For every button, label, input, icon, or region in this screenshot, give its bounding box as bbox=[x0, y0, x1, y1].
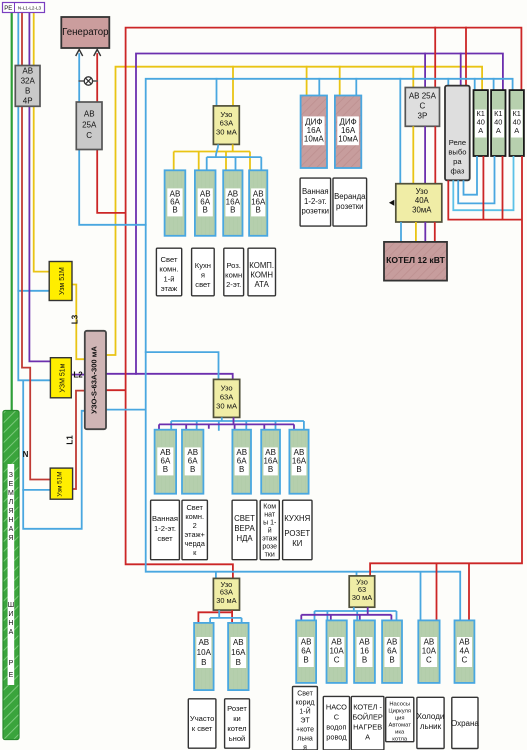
wire relay output bracket to K1-1 bbox=[464, 156, 478, 195]
contactor K1 40A no.2 bbox=[491, 90, 505, 156]
svg-text:М: М bbox=[8, 490, 14, 497]
svg-text:4А: 4А bbox=[460, 647, 470, 656]
svg-text:32А: 32А bbox=[21, 77, 36, 86]
wire N drop to UZO4 bbox=[356, 572, 358, 576]
svg-text:30 мА: 30 мА bbox=[216, 127, 238, 136]
breaker AV 6A B (kuhnya svet) bbox=[195, 170, 216, 236]
RCD UZO 63A 30mA no.2 bbox=[214, 379, 240, 417]
svg-text:АВ: АВ bbox=[301, 638, 312, 647]
load label nasos vodoprovod bbox=[323, 696, 349, 750]
breaker AV 6A B (vannaya svet) bbox=[155, 430, 177, 494]
svg-text:2: 2 bbox=[193, 521, 197, 530]
breaker AV 10A C (nasos vodoprovod) bbox=[327, 620, 347, 683]
wire yellow drop to UZO1 bbox=[232, 67, 234, 106]
load label komnaty 1 etazh rozetki bbox=[260, 500, 279, 560]
input terminal label PE N-L1-L2-L3 bbox=[3, 3, 45, 13]
contactor K1 40A no.3 bbox=[510, 90, 524, 156]
svg-text:АВ: АВ bbox=[459, 638, 470, 647]
svg-text:Холоди: Холоди bbox=[417, 712, 445, 721]
wire L2 distribution under UZO4 bbox=[301, 607, 391, 620]
wire purple drop to phase relay bbox=[460, 54, 462, 86]
svg-text:А: А bbox=[9, 526, 14, 533]
generator arrow left bbox=[76, 50, 83, 57]
svg-text:РОЗЕТ: РОЗЕТ bbox=[284, 529, 310, 538]
svg-text:Я: Я bbox=[8, 535, 13, 542]
svg-text:я: я bbox=[201, 271, 205, 280]
load label rozetki kotelnoy bbox=[225, 699, 250, 748]
breaker AV 16A B (roz komn 2 et) bbox=[223, 170, 242, 236]
wire yellow drop to DIF1 bbox=[306, 67, 308, 96]
svg-text:Ком: Ком bbox=[263, 504, 276, 511]
svg-text:Е: Е bbox=[9, 672, 14, 679]
load label roz komn 2-et bbox=[224, 248, 244, 296]
svg-text:этаж: этаж bbox=[161, 284, 178, 293]
wire relay red output bus bbox=[448, 156, 522, 220]
load label nasosy cirkulyacii avtomatika kotla bbox=[386, 697, 414, 742]
wire L3 yellow main: UZO-S out, up left side, across top, down to K1-1 bbox=[106, 67, 482, 355]
svg-text:АВ: АВ bbox=[22, 67, 33, 76]
wire N blue from input down, to UZM3 area and up into UZO-S left bbox=[18, 12, 85, 529]
svg-text:льник: льник bbox=[420, 722, 442, 731]
surge protector UZM-51M L2 bbox=[50, 358, 71, 398]
wire N drop to security breaker bbox=[459, 572, 461, 621]
load label ohrana bbox=[451, 697, 479, 748]
svg-text:30мА: 30мА bbox=[412, 206, 432, 215]
svg-text:Веранда: Веранда bbox=[334, 192, 366, 201]
svg-text:4Р: 4Р bbox=[23, 96, 33, 105]
svg-text:НДА: НДА bbox=[236, 534, 253, 543]
wire N branch into UZM3 bbox=[23, 489, 50, 491]
load label svet komn 1 etazh bbox=[156, 248, 181, 296]
wire N branch into UZM1 bbox=[18, 290, 49, 292]
wire red drop to security breaker bbox=[468, 563, 470, 620]
svg-text:В: В bbox=[230, 206, 235, 215]
wire N drop to DIF2 bbox=[355, 79, 357, 96]
svg-text:Н: Н bbox=[8, 620, 13, 627]
svg-text:С: С bbox=[86, 131, 92, 140]
svg-text:АВ: АВ bbox=[198, 638, 209, 647]
svg-text:И: И bbox=[8, 611, 13, 618]
RCD UZO 63A 30mA no.1 bbox=[213, 106, 239, 144]
svg-text:В: В bbox=[256, 206, 261, 215]
load label holodilnik bbox=[417, 697, 445, 748]
svg-text:НАГРЕВ: НАГРЕВ bbox=[353, 723, 382, 732]
wire PE green from input label to ground bus bbox=[11, 13, 13, 411]
svg-text:16: 16 bbox=[360, 647, 369, 656]
wire purple drop to AV25A-3P bbox=[424, 54, 426, 88]
svg-text:КОМН: КОМН bbox=[250, 271, 273, 280]
breaker AV 10A C (holodilnik) bbox=[418, 620, 439, 683]
surge protector UZM-51M L3 bbox=[49, 262, 72, 301]
wire yellow drop to AV25A-3P bbox=[412, 67, 414, 88]
RCD UZO 40A 30mA bbox=[396, 184, 442, 222]
svg-text:Р: Р bbox=[9, 660, 14, 667]
svg-text:В: В bbox=[296, 465, 301, 474]
svg-text:КОМП.: КОМП. bbox=[249, 261, 274, 270]
wire N distribution under UZO1 bbox=[207, 144, 262, 170]
svg-text:комн.: комн. bbox=[185, 512, 204, 521]
RCBO DIF 16A 10mA no.1 bbox=[301, 96, 327, 169]
svg-text:1-Й: 1-Й bbox=[299, 707, 310, 716]
wire N drop to UZO1 bbox=[216, 79, 218, 106]
wire N drop to K1-2 bbox=[493, 79, 495, 90]
svg-text:АВ: АВ bbox=[387, 638, 398, 647]
svg-text:Розет: Розет bbox=[227, 704, 247, 713]
svg-text:корид: корид bbox=[296, 700, 315, 707]
svg-text:котел: котел bbox=[227, 724, 246, 733]
wire L2 distribution under UZO2 bbox=[159, 417, 294, 429]
breaker AV 16A B (komnaty 1 etazh rozetki) bbox=[261, 430, 280, 494]
svg-text:10А: 10А bbox=[197, 648, 212, 657]
load label kuhnya svet bbox=[192, 248, 215, 296]
svg-text:Ванная: Ванная bbox=[302, 187, 329, 196]
generator arrow right bbox=[94, 50, 101, 57]
svg-text:Я: Я bbox=[8, 508, 13, 515]
breaker AV 16A B (rozetki kotelnoy) bbox=[228, 623, 249, 690]
breaker AV 25A C 3P bbox=[405, 88, 439, 127]
svg-text:В: В bbox=[203, 206, 208, 215]
svg-text:Ванная: Ванная bbox=[152, 514, 178, 523]
svg-text:я: я bbox=[303, 745, 307, 750]
svg-text:В: В bbox=[25, 87, 30, 96]
wire L1 from UZM3 out up into UZO-S left bbox=[73, 391, 85, 489]
svg-text:С: С bbox=[426, 656, 432, 665]
wire N drop to fridge breaker bbox=[420, 572, 422, 621]
ground bus bar bbox=[3, 411, 19, 740]
wire L1 red from input with jog into UZM3 bbox=[22, 12, 50, 480]
wire N drop to DIF1 bbox=[318, 79, 320, 96]
svg-text:ровод: ровод bbox=[326, 733, 347, 742]
wire L3 from UZM1 out down into UZO-S left bbox=[72, 285, 85, 360]
svg-text:16А: 16А bbox=[231, 648, 246, 657]
svg-text:L2: L2 bbox=[73, 371, 83, 380]
svg-text:СВЕТ: СВЕТ bbox=[234, 514, 255, 523]
svg-text:С: С bbox=[420, 102, 426, 111]
svg-text:этаж+: этаж+ bbox=[185, 530, 205, 539]
svg-text:Е: Е bbox=[9, 481, 14, 488]
svg-text:6А: 6А bbox=[301, 647, 311, 656]
svg-text:63А: 63А bbox=[220, 119, 234, 128]
svg-text:N-L1-L2-L3: N-L1-L2-L3 bbox=[18, 6, 42, 11]
svg-text:2-эт.: 2-эт. bbox=[226, 280, 241, 289]
svg-text:котла: котла bbox=[392, 737, 408, 743]
svg-text:N: N bbox=[23, 450, 29, 459]
svg-text:БОЙЛЕР: БОЙЛЕР bbox=[352, 713, 383, 722]
svg-text:нат: нат bbox=[264, 512, 276, 519]
svg-text:к свет: к свет bbox=[192, 724, 213, 733]
load label svet komn 2 etazh cherdak bbox=[182, 500, 207, 560]
svg-text:АВ: АВ bbox=[84, 110, 95, 119]
svg-text:КИ: КИ bbox=[292, 539, 302, 548]
breaker AV 10A B (uchastok svet) bbox=[194, 623, 214, 690]
svg-text:А: А bbox=[514, 126, 519, 135]
wire N distribution under UZO4 bbox=[315, 607, 397, 620]
wire L3 yellow from input into UZM1 bbox=[34, 12, 50, 272]
wire generator N down to N bus bbox=[79, 54, 146, 225]
breaker AV 6A B (svet komn 2 etazh) bbox=[182, 430, 203, 494]
breaker AV 6A B (nasosy cirk) bbox=[382, 620, 402, 683]
svg-text:АТА: АТА bbox=[255, 280, 270, 289]
svg-text:Реле: Реле bbox=[449, 138, 466, 147]
svg-text:розетки: розетки bbox=[302, 207, 330, 216]
wire N blue bus vertical and top run to K1-3 bbox=[106, 79, 513, 572]
wire N drop to phase relay bbox=[447, 79, 449, 86]
svg-text:ВЕРА: ВЕРА bbox=[234, 524, 255, 533]
wire relay output bracket to K1-2 bbox=[458, 156, 494, 203]
svg-text:10А: 10А bbox=[422, 647, 437, 656]
boiler KOTEL 12 kVT bbox=[384, 242, 447, 281]
svg-text:Узм 51М: Узм 51М bbox=[57, 471, 64, 496]
svg-text:тки: тки bbox=[265, 552, 275, 559]
svg-text:Л: Л bbox=[9, 499, 14, 506]
breaker AV 16A B (kuhnya rozetki) bbox=[289, 430, 308, 494]
svg-text:свет: свет bbox=[157, 534, 173, 543]
load label vannaya 1-2-et rozetki bbox=[300, 178, 331, 226]
wire L2 purple from input into UZM2 bbox=[29, 12, 50, 361]
wire phase feed K1-3 down to bottom right section bbox=[370, 156, 522, 576]
wire red drop to fridge breaker bbox=[436, 563, 438, 620]
RCD UZO 63 30mA no.4 bbox=[349, 576, 375, 607]
load label kuhnya rozetki bbox=[283, 500, 312, 560]
load label veranda rozetki bbox=[333, 178, 367, 226]
svg-text:Кухн: Кухн bbox=[195, 261, 211, 270]
svg-text:Узм 51М: Узм 51М bbox=[59, 267, 66, 295]
wire yellow distribution under UZO1 bbox=[174, 144, 250, 170]
load label vannaya 1-2-et svet bbox=[151, 500, 180, 560]
svg-text:1-2-эт.: 1-2-эт. bbox=[154, 524, 176, 533]
breaker AV 16A B (komp komnata) bbox=[249, 170, 267, 236]
breaker AV 16 B (kotel-boyler) bbox=[354, 620, 375, 683]
svg-text:6А: 6А bbox=[387, 647, 397, 656]
lamp indicator symbol bbox=[84, 77, 92, 85]
svg-text:этаж: этаж bbox=[262, 536, 277, 543]
svg-text:З: З bbox=[9, 472, 13, 479]
svg-text:В: В bbox=[201, 658, 206, 667]
wire red drop to phase relay bbox=[465, 28, 467, 86]
svg-text:Участо: Участо bbox=[190, 714, 214, 723]
svg-text:10мА: 10мА bbox=[338, 135, 358, 144]
svg-text:водоп: водоп bbox=[326, 723, 346, 732]
load label svet korid 1 et kotelnaya bbox=[293, 687, 318, 750]
svg-text:Роз.: Роз. bbox=[226, 261, 240, 270]
surge protector UZM-51M L1 bbox=[50, 468, 72, 499]
svg-text:+коте: +коте bbox=[296, 727, 314, 734]
fire RCD UZO-S-63A-300mA bbox=[85, 331, 106, 429]
svg-text:10А: 10А bbox=[329, 647, 344, 656]
wire relay output bracket to K1-3 bbox=[453, 156, 513, 210]
wire L2 purple main: UZO-S out right to UZO2, T up across top to K1-2 bbox=[106, 374, 233, 380]
svg-text:КУХНЯ: КУХНЯ bbox=[284, 514, 310, 523]
RCD UZO 63A 30mA no.3 bbox=[213, 578, 239, 610]
breaker AV 6A B (svet korid 1 et) bbox=[296, 620, 316, 683]
svg-text:С: С bbox=[334, 656, 340, 665]
svg-text:1-й: 1-й bbox=[164, 274, 175, 283]
svg-text:черда: черда bbox=[185, 539, 206, 548]
svg-text:В: В bbox=[268, 465, 273, 474]
svg-text:ика: ика bbox=[395, 730, 405, 736]
svg-text:КОТЕЛ 12 кВТ: КОТЕЛ 12 кВТ bbox=[386, 255, 445, 265]
load label komp komnata bbox=[248, 248, 276, 296]
arrow pointer at UZO-40A bbox=[389, 200, 394, 206]
svg-text:Свет: Свет bbox=[297, 691, 313, 698]
wires AV25A-3P down to UZO-40A bbox=[412, 126, 414, 183]
svg-text:Свет: Свет bbox=[186, 503, 203, 512]
svg-text:А: А bbox=[9, 629, 14, 636]
svg-text:льна: льна bbox=[297, 736, 313, 743]
wire yellow drop to DIF2 bbox=[339, 67, 341, 96]
load label svet veranda bbox=[232, 500, 257, 560]
contactor K1 40A no.1 bbox=[474, 90, 488, 156]
wire lamp link bbox=[79, 80, 97, 82]
svg-text:АВ: АВ bbox=[424, 638, 435, 647]
generator bbox=[61, 17, 109, 48]
svg-text:А: А bbox=[496, 126, 501, 135]
svg-text:Охрана: Охрана bbox=[451, 719, 479, 728]
load label kotel-boyler nagrev bbox=[351, 696, 384, 750]
svg-text:фаз: фаз bbox=[450, 167, 464, 176]
svg-text:1-2-эт.: 1-2-эт. bbox=[304, 197, 327, 206]
svg-text:Свет: Свет bbox=[161, 255, 178, 264]
svg-text:АВ: АВ bbox=[359, 638, 370, 647]
svg-text:40А: 40А bbox=[415, 196, 430, 205]
svg-text:й: й bbox=[268, 527, 272, 535]
svg-text:розетки: розетки bbox=[336, 202, 364, 211]
wire N branch to UZO2 bbox=[146, 352, 219, 379]
wire generator L down to red bus bbox=[97, 54, 125, 213]
svg-text:АВ 25А: АВ 25А bbox=[409, 92, 437, 101]
wires UZO-40A down to boiler bbox=[400, 222, 402, 242]
wire red distribution under UZO3 bbox=[198, 610, 232, 623]
wire L2 from UZM2 out into UZO-S left bbox=[71, 374, 85, 376]
svg-text:выбо: выбо bbox=[448, 148, 466, 157]
breaker AV 25A C (generator) bbox=[76, 102, 102, 150]
svg-text:комн: комн bbox=[225, 271, 242, 280]
svg-text:В: В bbox=[303, 656, 308, 665]
svg-text:Н: Н bbox=[8, 517, 13, 524]
svg-text:УЗМ 51м: УЗМ 51м bbox=[60, 363, 67, 392]
wire N drop to UZO3 bbox=[215, 572, 217, 579]
wire red drop to AV25A-3P bbox=[434, 28, 436, 88]
svg-text:В: В bbox=[190, 465, 195, 474]
svg-text:30 мА: 30 мА bbox=[216, 402, 238, 411]
svg-text:В: В bbox=[163, 465, 168, 474]
svg-text:комн.: комн. bbox=[159, 265, 178, 274]
breaker AV 6A B (svet komn 1 etazh) bbox=[165, 170, 186, 236]
svg-text:PE: PE bbox=[4, 6, 12, 12]
svg-text:3Р: 3Р bbox=[418, 112, 428, 121]
svg-text:L3: L3 bbox=[71, 314, 80, 324]
svg-text:25А: 25А bbox=[82, 121, 97, 130]
svg-text:63А: 63А bbox=[220, 393, 234, 402]
RCBO DIF 16A 10mA no.2 bbox=[335, 96, 361, 169]
svg-text:С: С bbox=[462, 656, 468, 665]
svg-text:розе: розе bbox=[262, 544, 277, 551]
svg-text:А: А bbox=[365, 733, 370, 742]
wire L1 red main vertical and top run to K1-3 bbox=[106, 28, 522, 579]
svg-text:А: А bbox=[478, 126, 483, 135]
breaker AV 6A B (svet veranda) bbox=[232, 430, 251, 494]
svg-text:АВ: АВ bbox=[331, 638, 342, 647]
svg-text:ра: ра bbox=[453, 157, 462, 166]
svg-text:С: С bbox=[334, 713, 340, 722]
svg-text:30 мА: 30 мА bbox=[352, 593, 372, 602]
svg-text:В: В bbox=[236, 658, 241, 667]
svg-text:Автомат: Автомат bbox=[389, 723, 412, 729]
wire N drop to UZO-40A bbox=[399, 79, 401, 184]
svg-text:свет: свет bbox=[195, 280, 211, 289]
svg-text:НАСО: НАСО bbox=[326, 703, 347, 712]
svg-text:ция: ция bbox=[395, 716, 405, 722]
svg-text:КОТЕЛ -: КОТЕЛ - bbox=[353, 703, 382, 712]
svg-text:В: В bbox=[362, 656, 367, 665]
svg-text:Генератор: Генератор bbox=[62, 27, 108, 38]
svg-text:ки: ки bbox=[233, 714, 241, 723]
svg-text:L1: L1 bbox=[66, 435, 75, 445]
svg-text:10мА: 10мА bbox=[304, 135, 324, 144]
wire N drop to K1-1 bbox=[474, 79, 476, 90]
wire N distribution under UZO2 bbox=[171, 417, 304, 430]
svg-text:В: В bbox=[389, 656, 394, 665]
svg-text:ы 1-: ы 1- bbox=[263, 520, 277, 527]
svg-text:Насосы: Насосы bbox=[389, 702, 410, 708]
svg-text:АВ: АВ bbox=[233, 638, 244, 647]
svg-text:ЭТ: ЭТ bbox=[300, 718, 310, 725]
svg-text:Циркуля: Циркуля bbox=[388, 709, 411, 715]
breaker AV 32A B 4P (main input) bbox=[15, 66, 40, 107]
breaker AV 4A C (ohrana) bbox=[455, 620, 475, 683]
svg-text:Узо: Узо bbox=[416, 187, 429, 196]
svg-text:ьной: ьной bbox=[229, 734, 246, 743]
svg-text:УЗО-S-63А-300 мА: УЗО-S-63А-300 мА bbox=[90, 346, 99, 414]
svg-text:30 мА: 30 мА bbox=[216, 596, 236, 605]
wire N distribution under UZO3 bbox=[210, 610, 242, 623]
phase selection relay bbox=[445, 86, 470, 181]
svg-text:Узо: Узо bbox=[221, 384, 233, 393]
svg-text:В: В bbox=[239, 465, 244, 474]
load label uchastok svet bbox=[188, 699, 216, 748]
svg-text:В: В bbox=[172, 206, 177, 215]
svg-text:Ш: Ш bbox=[8, 602, 14, 609]
